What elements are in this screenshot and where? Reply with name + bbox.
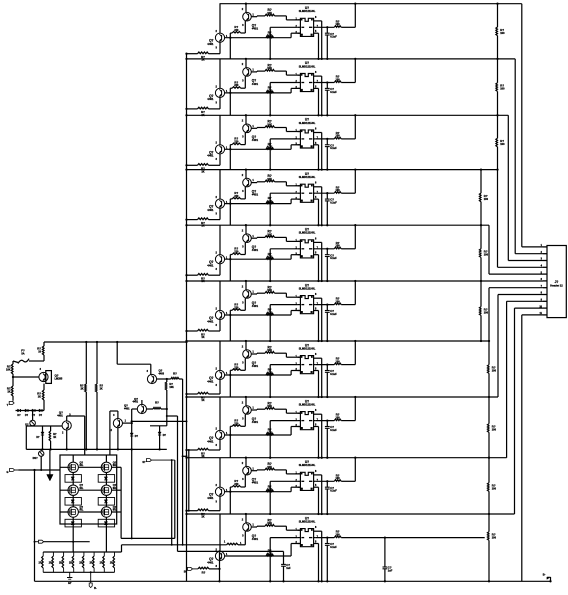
svg-text:5A: 5A: [21, 353, 24, 356]
wire Q22 right down: [182, 379, 188, 546]
resistor R37: [157, 372, 183, 381]
resistor RC9 (chain): [485, 483, 497, 492]
wire U1 pin8 down: [319, 21, 323, 60]
svg-text:4401: 4401: [207, 560, 214, 564]
ground flag under bank: [67, 572, 72, 585]
svg-text:4401: 4401: [252, 193, 259, 197]
resistor R38: [165, 379, 174, 409]
wire U7 pin5 down: [317, 371, 319, 399]
transistor Q2B: [242, 58, 259, 86]
sense chain rail B: [480, 168, 482, 342]
wire U3 pin2 left: [269, 139, 298, 171]
wire return row: [121, 537, 175, 539]
wire gate feed column: [166, 415, 178, 551]
wire U2 pin5 down: [317, 88, 319, 116]
resistor R6A: [265, 285, 300, 297]
svg-text:220: 220: [234, 306, 239, 309]
svg-text:100: 100: [500, 143, 505, 146]
wire Q5B base to R5A: [251, 236, 265, 239]
svg-text:100: 100: [336, 135, 341, 138]
svg-text:10K: 10K: [267, 289, 272, 292]
svg-text:B-: B-: [94, 587, 97, 590]
resistor R5C: [334, 241, 341, 249]
sense chain rail C: [488, 225, 490, 582]
resistor R9C: [334, 473, 341, 481]
svg-text:SLMD121H8L: SLMD121H8L: [299, 287, 316, 291]
resistor RC1 (chain): [493, 27, 505, 36]
resistor R6S (emitter ladder): [185, 329, 220, 339]
transistor Q5A: [207, 225, 228, 275]
wire U2 pin8 down: [319, 76, 323, 116]
wire R2C to top rail: [341, 58, 356, 83]
resistor R4S (emitter ladder): [185, 218, 220, 228]
svg-text:100: 100: [500, 88, 505, 91]
resistor R3B (base): [266, 142, 274, 149]
resistor RS7 (shunt): [100, 552, 105, 572]
svg-text:10K: 10K: [6, 369, 11, 372]
capacitor C9: [325, 480, 337, 515]
svg-text:4401: 4401: [57, 415, 63, 418]
MOSFET M2: [98, 460, 117, 482]
svg-text:1K: 1K: [53, 436, 56, 439]
drive row wire: [122, 544, 227, 546]
svg-text:R?: R?: [155, 401, 159, 405]
svg-text:4401: 4401: [252, 420, 259, 424]
resistor R10E (emitter of Q10B): [238, 531, 245, 545]
wire base of Q7A: [225, 371, 301, 376]
wire Q6B base to R6A: [251, 292, 265, 295]
wire U10 pin2 left: [269, 538, 298, 583]
MOSFET M1: [65, 460, 84, 482]
svg-text:2K: 2K: [80, 387, 83, 390]
transistor Q10B: [242, 513, 259, 541]
wire U1 pin5 down: [317, 33, 319, 60]
resistor RC5 (chain): [477, 249, 489, 258]
wire stage10 base node: [178, 550, 284, 552]
resistor RC10 (chain): [485, 532, 497, 541]
svg-text:4401: 4401: [252, 82, 259, 86]
resistor R9B (base): [266, 484, 274, 491]
transistor Q6A: [207, 281, 228, 331]
svg-text:0.1uF: 0.1uF: [330, 490, 337, 493]
svg-text:220: 220: [234, 29, 239, 32]
svg-text:100: 100: [492, 537, 497, 540]
svg-text:4401: 4401: [207, 42, 214, 46]
svg-text:SLMD121H8L: SLMD121H8L: [299, 347, 316, 351]
wire base of Q8A: [225, 427, 301, 436]
svg-text:100: 100: [336, 533, 341, 536]
svg-text:10K: 10K: [267, 67, 272, 70]
wire base of Q5A: [225, 255, 301, 260]
svg-text:J?: J?: [555, 280, 559, 284]
wire stage2 to pin2: [515, 59, 543, 254]
wire U9 pin5 down: [317, 487, 319, 515]
resistor R9S (emitter ladder): [185, 509, 220, 519]
svg-text:SLMD121H8L: SLMD121H8L: [299, 175, 316, 179]
capacitor C6: [325, 303, 337, 342]
svg-text:4401: 4401: [207, 264, 214, 268]
resistor R8B (base): [266, 428, 274, 435]
svg-text:4401: 4401: [207, 496, 214, 500]
stage 2 top wire / cell bus: [187, 58, 516, 60]
resistor R1E (emitter of Q1B): [229, 21, 245, 59]
wire U5 output: [316, 248, 335, 250]
svg-text:100: 100: [336, 23, 341, 26]
svg-text:1uF: 1uF: [286, 567, 291, 570]
svg-text:100: 100: [336, 189, 341, 192]
resistor RC7 (chain): [485, 365, 497, 374]
resistor R6B (base): [266, 308, 274, 315]
wire ladder return: [188, 449, 190, 512]
resistor R2E (emitter of Q2B): [229, 76, 245, 115]
junction dots on left rail: [185, 58, 187, 515]
wire stage7 to pin7: [489, 287, 543, 289]
wire R6C to top rail: [341, 280, 356, 305]
wire Q8B base to R8A: [251, 408, 265, 411]
svg-text:10K: 10K: [267, 178, 272, 181]
wire left down to bottom: [34, 470, 36, 581]
svg-text:100: 100: [484, 254, 489, 257]
svg-text:0.1uF: 0.1uF: [330, 429, 337, 432]
transistor Q21: [57, 411, 84, 450]
transistor Q3A: [207, 115, 228, 165]
svg-text:4401: 4401: [207, 208, 214, 212]
svg-text:IRL: IRL: [113, 464, 117, 467]
resistor R5E (emitter of Q5B): [229, 243, 245, 282]
grid right taps: [117, 467, 121, 538]
resistor RS5 (shunt): [79, 552, 84, 572]
svg-text:10K: 10K: [267, 12, 272, 15]
capacitor C10B: [281, 551, 291, 582]
wire U3 pin8 down: [319, 133, 323, 171]
wire stage5 to pin5: [489, 273, 543, 275]
svg-text:100: 100: [484, 198, 489, 201]
wire U3 output: [316, 138, 335, 140]
wire base of Q10A: [225, 544, 301, 557]
bottom bus wire: [35, 580, 551, 582]
wire U4 pin5 down: [317, 199, 319, 226]
resistor R6C: [334, 297, 341, 305]
op-amp U10 (SLMD121H8L): [295, 516, 318, 546]
rail resistor R36: [95, 342, 103, 449]
resistor R34: [49, 426, 57, 449]
stage 9 top wire / cell bus: [187, 457, 507, 459]
wire stage9 to pin9: [507, 301, 543, 457]
wire chain to pin4: [498, 266, 544, 268]
resistor R10S: [198, 567, 220, 574]
svg-text:4401: 4401: [252, 481, 259, 485]
resistor R3S (emitter ladder): [185, 164, 220, 174]
resistor R10B (base): [266, 549, 274, 556]
resistor R4E (emitter of Q4B): [229, 187, 245, 225]
svg-text:D?: D?: [17, 414, 21, 417]
svg-text:1K: 1K: [201, 516, 204, 519]
svg-text:1K: 1K: [201, 170, 204, 173]
wire U8 output: [316, 420, 335, 422]
LED DS1: [25, 410, 35, 427]
svg-text:0.1uF: 0.1uF: [330, 91, 337, 94]
resistor R1B (base): [266, 30, 274, 37]
resistor R2C: [334, 75, 341, 83]
stage 3 top wire / cell bus: [187, 114, 509, 116]
resistor R1S (emitter ladder): [185, 52, 220, 62]
svg-text:10K: 10K: [267, 522, 272, 525]
svg-text:SLMD121H8L: SLMD121H8L: [299, 403, 316, 407]
fuse F1: [13, 349, 44, 364]
svg-text:0.1uF: 0.1uF: [330, 36, 337, 39]
svg-text:100: 100: [492, 429, 497, 432]
wire U10 output: [316, 537, 335, 539]
input wire: [19, 469, 61, 471]
svg-text:220: 220: [234, 483, 239, 486]
svg-text:B-: B-: [543, 573, 546, 577]
wire base of Q1A: [225, 33, 301, 38]
wire U5 pin2 left: [269, 249, 298, 282]
svg-text:SLMD121H8L: SLMD121H8L: [299, 231, 316, 235]
transistor Q10A: [207, 514, 228, 568]
stage 1 top wire / cell bus: [220, 3, 522, 5]
MOSFET M4: [98, 483, 117, 505]
resistor R4A: [265, 174, 300, 186]
svg-text:0.1uF: 0.1uF: [330, 147, 337, 150]
capacitor C7: [325, 363, 337, 398]
transistor Q3B: [242, 114, 259, 142]
wire U8 pin8 down: [319, 414, 323, 459]
resistor RS3 (shunt): [59, 552, 64, 572]
svg-text:2R: 2R: [49, 562, 52, 565]
wire U4 pin2 left: [269, 193, 298, 226]
bank riser: [121, 545, 123, 552]
diode D5: [36, 426, 44, 449]
wire Q1B base to R1A: [251, 15, 265, 18]
resistor R1C: [334, 19, 341, 27]
wire U6 pin2 left: [269, 305, 298, 343]
resistor R7B (base): [266, 368, 274, 375]
svg-text:4401: 4401: [252, 304, 259, 308]
connector J1 (Header 12): [539, 244, 566, 318]
svg-text:10K: 10K: [267, 233, 272, 236]
resistor R7A: [265, 345, 300, 357]
svg-text:220: 220: [234, 422, 239, 425]
svg-text:IRL: IRL: [113, 487, 117, 490]
resistor R9A: [265, 462, 300, 474]
svg-text:D?: D?: [163, 434, 167, 437]
resistor R8C: [334, 413, 341, 421]
op-amp U1 (SLMD121H8L): [295, 6, 318, 36]
svg-text:S?: S?: [142, 461, 146, 464]
transistor Q6B: [242, 280, 259, 308]
resistor RS2 (shunt): [49, 552, 54, 572]
resistor R4C: [334, 185, 341, 193]
svg-text:G?: G?: [68, 582, 72, 585]
wire Q7B base to R7A: [251, 352, 265, 355]
net flag mid left: [34, 540, 44, 543]
svg-text:SLMD121H8L: SLMD121H8L: [299, 9, 316, 13]
wire stage10 to pin10: [515, 308, 544, 514]
MOSFET M6: [98, 505, 117, 527]
resistor R7S (emitter ladder): [185, 392, 220, 402]
stage 5 top wire / cell bus: [187, 224, 490, 226]
wire Q10B base to R10A: [251, 525, 265, 528]
svg-text:1K: 1K: [38, 396, 41, 399]
svg-text:D?: D?: [25, 414, 29, 417]
svg-text:4403: 4403: [159, 373, 165, 376]
svg-text:100: 100: [336, 416, 341, 419]
resistor R39: [147, 401, 168, 411]
wire phase return: [131, 449, 133, 538]
capacitor C5: [325, 248, 337, 282]
svg-text:SLMD121H8L: SLMD121H8L: [299, 463, 316, 467]
wire U1 pin2 left: [269, 27, 298, 60]
svg-text:4401: 4401: [207, 97, 214, 101]
wire U8 pin5 down: [317, 427, 319, 459]
svg-text:0.1uF: 0.1uF: [330, 202, 337, 205]
wire U8 pin2 left: [269, 421, 298, 459]
svg-text:220: 220: [234, 141, 239, 144]
diode string D1-D4: [16, 409, 45, 417]
stage 6 top wire / cell bus: [187, 280, 544, 282]
svg-text:100: 100: [484, 312, 489, 315]
svg-text:10K: 10K: [169, 386, 174, 389]
resistor R5B (base): [266, 252, 274, 259]
svg-text:0.1uF: 0.1uF: [330, 257, 337, 260]
stage 7 top wire / cell bus: [187, 340, 490, 342]
op-amp U9 (SLMD121H8L): [295, 460, 318, 490]
resistor R6E (emitter of Q6B): [229, 298, 245, 341]
resistor R8S (emitter ladder): [185, 448, 220, 458]
svg-text:100: 100: [336, 300, 341, 303]
resistor R2A: [265, 63, 300, 75]
net flag stage10 emitter: [184, 567, 198, 573]
svg-text:4401: 4401: [207, 154, 214, 158]
svg-text:SLMD121H8L: SLMD121H8L: [299, 121, 316, 125]
transistor Q8A: [207, 397, 228, 450]
wire U6 pin5 down: [317, 311, 319, 343]
svg-text:1K: 1K: [201, 399, 204, 402]
wire U5 pin5 down: [317, 255, 319, 282]
svg-text:10K: 10K: [267, 124, 272, 127]
svg-text:100: 100: [336, 360, 341, 363]
wire U6 pin8 down: [319, 298, 323, 342]
power flag under bank: [89, 571, 97, 590]
wire bottom bus to pin11: [522, 315, 543, 581]
capacitor C10: [325, 536, 337, 582]
svg-text:G: G: [7, 471, 9, 474]
svg-text:SLMD121H8L: SLMD121H8L: [299, 520, 316, 524]
stage 8 top wire / cell bus: [187, 396, 499, 398]
wire base of Q4A: [225, 199, 301, 204]
wire R1C to top rail: [341, 3, 356, 28]
resistor R31: [6, 361, 13, 374]
wire U9 pin2 left: [269, 481, 298, 515]
V+ rail wire: [44, 341, 188, 343]
wire Q2B base to R2A: [251, 70, 265, 73]
svg-text:D?: D?: [36, 436, 40, 439]
op-amp U2 (SLMD121H8L): [295, 61, 318, 91]
transistor Q22: [117, 342, 164, 384]
svg-text:2R: 2R: [100, 562, 103, 565]
resistor R1A: [265, 8, 300, 20]
wire U7 pin8 down: [319, 358, 323, 398]
op-amp U8 (SLMD121H8L): [295, 399, 318, 429]
wire base of Q3A: [225, 145, 301, 150]
resistor R2B (base): [266, 86, 274, 93]
wire R8C to top rail: [341, 396, 356, 421]
wire stage8 to pin8: [498, 295, 543, 398]
wire U9 output: [316, 480, 335, 482]
input net flag: [7, 469, 19, 475]
resistor R10A: [265, 518, 300, 530]
wire stage3 to pin3: [508, 115, 543, 260]
capacitor C11: [383, 538, 393, 583]
resistor R3A: [265, 120, 300, 132]
resistor R8E (emitter of Q8B): [229, 414, 245, 457]
resistor RC6 (chain): [477, 307, 489, 316]
transistor Q23: [132, 397, 147, 414]
resistor R8A: [265, 401, 300, 413]
resistor RC3 (chain): [493, 138, 505, 147]
wire return riser: [174, 460, 176, 538]
drive wire from flag: [44, 541, 90, 543]
resistor RS4 (shunt): [69, 552, 74, 572]
wire Q3B base to R3A: [251, 127, 265, 130]
resistor R33: [37, 384, 44, 411]
svg-text:4401: 4401: [207, 379, 214, 383]
wire R4C to top rail: [341, 168, 356, 193]
capacitor C2: [325, 81, 337, 116]
svg-text:Header 12: Header 12: [550, 284, 563, 288]
resistor R3E (emitter of Q3B): [229, 133, 245, 170]
resistor R5S (emitter ladder): [185, 274, 220, 284]
MOSFET M5: [65, 505, 84, 527]
resistor RC4 (chain): [477, 193, 489, 202]
svg-text:4401: 4401: [207, 439, 214, 443]
MOSFET grid row wires: [60, 455, 117, 524]
wire Q23 base column: [131, 409, 133, 433]
left ladder rail: [186, 54, 188, 582]
resistor RC8 (chain): [485, 424, 497, 433]
resistor R9E (emitter of Q9B): [229, 475, 245, 514]
svg-text:4401: 4401: [252, 537, 259, 541]
svg-text:2R: 2R: [59, 562, 62, 565]
resistor RS6 (shunt): [89, 552, 94, 572]
transistor Q9B: [242, 457, 259, 485]
transistor Q7A: [207, 341, 228, 394]
wire U10 pin8 down: [319, 531, 323, 582]
resistor R40: [224, 541, 242, 546]
wire base of Q9A: [225, 487, 301, 492]
svg-text:10K: 10K: [267, 466, 272, 469]
svg-text:220: 220: [234, 195, 239, 198]
wire sense column: [171, 460, 173, 545]
wire stage1 to pin1: [522, 4, 543, 247]
resistor R7C: [334, 357, 341, 365]
svg-text:DS?: DS?: [33, 457, 38, 460]
svg-text:2R: 2R: [69, 562, 72, 565]
transistor Q7B: [242, 340, 259, 368]
svg-text:100: 100: [336, 477, 341, 480]
ground arrow: [47, 449, 53, 481]
wire Q10A emitter down: [218, 553, 220, 583]
svg-text:1K: 1K: [7, 391, 10, 394]
wire U9 pin8 down: [319, 475, 323, 515]
wire R3C to top rail: [341, 114, 356, 139]
grid bottom drops: [72, 524, 106, 552]
svg-text:SLMD121H8L: SLMD121H8L: [299, 64, 316, 68]
capacitor C3: [325, 138, 337, 171]
transistor Q20 (with pack): [12, 368, 63, 383]
op-amp U3 (SLMD121H8L): [295, 118, 318, 148]
